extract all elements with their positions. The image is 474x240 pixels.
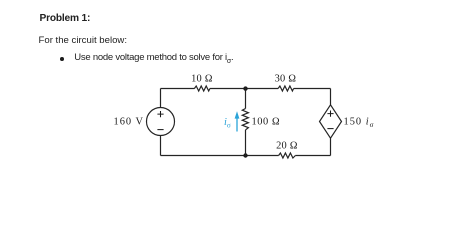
wire middle vertical upper <box>245 89 247 109</box>
bullet marker <box>60 57 64 61</box>
resistor 100ohm zigzag vertical <box>242 109 248 130</box>
wire top-middle segment <box>210 88 278 90</box>
wire bottom-right segment <box>295 155 330 157</box>
minus sign in source <box>157 129 163 131</box>
wire right vertical upper <box>330 89 332 105</box>
plus sign in diamond <box>327 111 333 117</box>
svg-text:150 iσ: 150 iσ <box>344 117 375 130</box>
wire right vertical lower <box>330 138 332 155</box>
svg-text:iσ: iσ <box>224 117 231 130</box>
current arrow i sigma <box>236 117 238 132</box>
wire top-right segment <box>294 88 331 90</box>
wire bottom-left segment <box>161 155 279 157</box>
resistor 30ohm zigzag <box>278 86 294 91</box>
line For the circuit below: <box>39 35 128 46</box>
heading Problem 1: <box>40 13 91 24</box>
node dot bottom <box>243 153 247 157</box>
voltage source 160V circle <box>147 108 175 136</box>
svg-text:20 Ω: 20 Ω <box>276 141 298 152</box>
node dot top <box>243 86 247 90</box>
svg-text:160 V: 160 V <box>114 117 145 128</box>
svg-text:100 Ω: 100 Ω <box>252 117 281 128</box>
svg-text:30 Ω: 30 Ω <box>275 73 297 84</box>
resistor 20ohm zigzag <box>279 153 296 158</box>
plus sign in source <box>157 111 163 117</box>
bullet text Use node voltage method <box>74 52 233 65</box>
resistor 10ohm zigzag <box>194 86 210 91</box>
wire top-left segment <box>161 88 195 90</box>
wire left vertical upper <box>160 89 162 108</box>
minus sign in diamond <box>327 128 333 130</box>
wire middle vertical lower <box>245 130 247 156</box>
wire left vertical lower <box>160 136 162 156</box>
svg-text:10 Ω: 10 Ω <box>191 73 213 84</box>
dependent source diamond U1 <box>320 105 342 138</box>
